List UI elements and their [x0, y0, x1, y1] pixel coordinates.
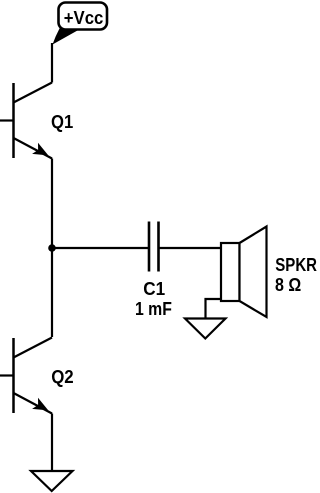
Q1 emitter arrow — [32, 143, 48, 156]
Q2 emitter arrow — [32, 398, 48, 411]
Q1 base bar — [12, 83, 15, 158]
wire node to C1 — [52, 247, 149, 249]
wire Q1 emitter to Q2 collector (vertical rail) — [51, 159, 53, 338]
+Vcc power label box — [59, 3, 108, 30]
Q2 emitter lead — [14, 393, 53, 414]
svg-text:+Vcc: +Vcc — [64, 8, 104, 28]
Q1 collector lead — [14, 83, 53, 103]
Q2 collector lead — [14, 338, 53, 358]
svg-text:Q2: Q2 — [51, 367, 73, 387]
transistor Q1 — [0, 83, 52, 159]
capacitor C1 — [149, 222, 159, 272]
speaker cone — [240, 227, 267, 318]
Q2 base bar — [12, 338, 15, 413]
wire C1 to speaker — [159, 247, 222, 249]
svg-text:8 Ω: 8 Ω — [275, 275, 301, 295]
+Vcc callout pointer — [53, 29, 82, 45]
Q2 base lead — [0, 374, 14, 376]
svg-text:1 mF: 1 mF — [135, 299, 172, 319]
wire Q2 emitter to ground — [51, 414, 53, 472]
wire Vcc to Q1 collector — [51, 43, 53, 83]
ground (Q2 emitter) — [31, 471, 73, 491]
svg-text:SPKR: SPKR — [275, 255, 317, 275]
speaker SPKR — [221, 227, 267, 318]
Q1 emitter lead — [14, 138, 53, 159]
Q1 base lead — [0, 119, 14, 121]
speaker driver rectangle — [221, 243, 240, 301]
transistor Q2 — [0, 338, 52, 414]
svg-text:C1: C1 — [143, 279, 165, 299]
ground (speaker) — [185, 319, 226, 339]
wire speaker to ground — [206, 299, 222, 319]
node junction dot — [48, 244, 56, 252]
svg-text:Q1: Q1 — [51, 112, 73, 132]
